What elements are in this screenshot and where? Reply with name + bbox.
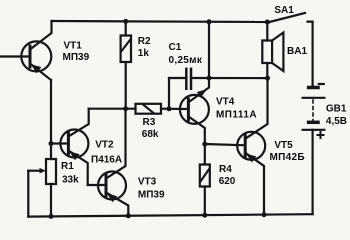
node R2 top on rail: [123, 19, 128, 24]
node VT2 base junction: [49, 141, 54, 146]
svg-text:0,25мк: 0,25мк: [169, 55, 203, 66]
node R4 bottom on rail: [202, 213, 207, 218]
node R1 bottom on rail: [49, 214, 54, 219]
battery GB1: [303, 84, 325, 214]
svg-text:VT4: VT4: [216, 97, 235, 108]
resistor R4: [200, 144, 210, 215]
resistor R2: [121, 21, 131, 108]
node VT5 emitter on rail: [262, 212, 267, 217]
svg-text:R1: R1: [61, 161, 74, 172]
wire VT2 emitter to VT3 base: [88, 184, 106, 186]
svg-text:VT3: VT3: [138, 177, 157, 188]
transistor VT5: [237, 78, 267, 215]
node VT3 emitter on rail: [126, 213, 131, 218]
svg-text:SA1: SA1: [274, 5, 294, 16]
svg-text:R4: R4: [219, 164, 232, 175]
svg-text:МП39: МП39: [63, 52, 90, 63]
node speaker/VT5 collector junction: [265, 76, 270, 81]
wire VT2 base: [51, 142, 68, 144]
transistor VT4: [180, 22, 209, 144]
svg-text:VT5: VT5: [274, 140, 293, 151]
capacitor C1: [169, 69, 191, 109]
potentiometer R1: [28, 159, 56, 217]
switch SA1: [270, 13, 313, 87]
svg-text:33k: 33k: [62, 175, 79, 186]
node VT4 emitter on rail: [207, 19, 212, 24]
transistor VT1: [1, 21, 52, 80]
node R2/VT3/R3 junction: [123, 106, 128, 111]
resistor R3: [136, 104, 170, 114]
wire C1 to speaker node: [191, 77, 268, 79]
node C1/VT4 emitter junction: [207, 76, 212, 81]
node VT4 collector/VT5 base/R4: [202, 142, 207, 147]
wire top supply rail: [52, 21, 270, 22]
svg-text:R2: R2: [138, 36, 151, 47]
svg-text:МП42Б: МП42Б: [270, 152, 305, 163]
svg-text:П416А: П416А: [91, 154, 122, 165]
svg-text:VT1: VT1: [64, 41, 83, 52]
node R3/C1/VT4 base junction: [167, 106, 172, 111]
wire VT5 base: [205, 144, 245, 145]
svg-text:МП111А: МП111А: [216, 110, 257, 121]
wire bottom rail: [28, 214, 312, 216]
wire VT1 emitter to R1 / VT2 base node: [50, 80, 52, 159]
svg-text:1k: 1k: [138, 48, 150, 59]
svg-text:GB1: GB1: [326, 103, 347, 114]
svg-text:R3: R3: [143, 117, 156, 128]
svg-text:C1: C1: [169, 42, 182, 53]
svg-text:МП39: МП39: [138, 189, 165, 200]
svg-text:68k: 68k: [142, 129, 159, 140]
wire collector bus to R3: [89, 108, 136, 110]
speaker BA1: [262, 22, 283, 78]
node speaker top on rail: [265, 20, 270, 25]
wire VT4 base: [169, 108, 188, 110]
svg-text:4,5В: 4,5В: [326, 116, 347, 127]
transistor VT3: [98, 109, 128, 216]
svg-text:620: 620: [219, 176, 236, 187]
svg-text:BA1: BA1: [287, 46, 307, 57]
transistor VT2: [60, 109, 88, 185]
svg-text:VT2: VT2: [95, 139, 114, 150]
